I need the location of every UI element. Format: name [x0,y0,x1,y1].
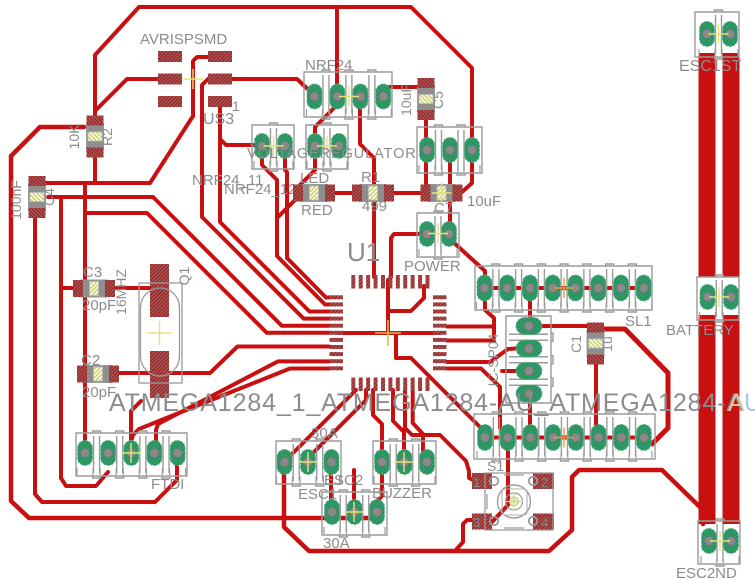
svg-text:Q1: Q1 [176,266,192,285]
capacitor C7 10uF [429,185,455,202]
svg-text:BATTERY: BATTERY [666,322,734,339]
connector ESC2ND [698,519,740,566]
wire U1 bottom pad8 to S1 button pad1 [405,390,475,481]
svg-text:1u: 1u [599,336,615,352]
wire VREG-B pin1 to LED left [298,150,315,189]
origin cross BUZZER [394,452,414,472]
origin cross VREG A [264,136,284,156]
svg-text:U1: U1 [347,237,380,267]
svg-text:C5: C5 [430,91,446,109]
wire S1 row pad2 to button [492,438,508,522]
wire ESC1 pin1 down and around to ESC2ND bar [284,466,703,551]
wire NRF24 pin4 to C5 [389,85,422,89]
origin cross FTDI [121,443,141,463]
wire BUZZER pin1 down to 30A pad3 [377,466,382,517]
wire NRF24 pin2 up to top edge [335,9,339,93]
wire POWER pin2 diag through SL1 pin1 down right side [452,241,494,341]
svg-text:VOLTAGEREGULATOR: VOLTAGEREGULATOR [247,146,417,162]
svg-text:C7: C7 [434,200,453,217]
resistor R2 10K [87,116,104,158]
wire ESC1 pin3 down to 30A pad1 [331,466,332,512]
wire R2 bottom stub [93,158,97,183]
wire H2: C4 right to fan pad5 [48,197,329,326]
wire US3 pin4 to NRF24 pin1 [232,79,314,95]
wire FTDI pad3 up [131,401,141,449]
svg-text:S1: S1 [487,458,504,474]
connector S1 row (ATMEGA module) [474,412,655,461]
connector BATTERY [697,275,739,322]
connector ESC 30A bottom 3-pin [322,490,387,537]
connector NRF24_11 (VREG A) [252,123,294,171]
wire vertical x61 C3 branch [59,197,63,478]
wire bottom edge branch to S1 button [455,520,474,551]
svg-text:BUZZER: BUZZER [372,485,432,502]
origin cross U1 [375,320,401,346]
svg-text:3: 3 [473,515,480,530]
wire U1 bottom pad9 to BUZZER pin3 [413,390,427,462]
wire H3: to fan pad6 [85,213,329,333]
wire NRF24 pin3 down to R1 [360,100,374,186]
origin cross S1 row [554,428,574,448]
wire US3 pin3 vertical to fan pad4 [202,79,329,319]
connector POWER [417,211,459,259]
wire IC-SP04 pin3 stub [502,369,517,373]
wire R1 right to C7 left [392,191,424,195]
svg-text:30A: 30A [311,425,338,442]
origin cross VREG B [317,136,337,156]
wire US3 pin1 vertical to H1 diagonal [193,57,208,116]
svg-text:499: 499 [362,198,387,215]
svg-text:A: A [728,389,745,417]
svg-text:ATMEGA1284_1_ATMEGA1284-AU_ATM: ATMEGA1284_1_ATMEGA1284-AU_ATMEGA1284-A [109,389,744,417]
svg-text:1: 1 [232,98,240,114]
svg-text:C4: C4 [41,188,57,206]
switch S1 pushbutton [472,473,492,489]
wire FTDI pad5 diag to L2 junction [155,466,177,502]
origin cross POWER [428,224,448,244]
svg-text:C1: C1 [568,335,584,353]
wire branch to U1 right pad7 [447,339,494,343]
svg-text:ESC1ST: ESC1ST [679,58,741,75]
origin cross ESC 30A [344,502,364,522]
wire C1 bottom to S1 row pad6 [596,360,598,437]
capacitor C2 20pF [85,366,111,383]
wire C3 left stub [61,286,74,290]
wire H1: C4 top - R2 bottom - diag to US3 vertical [37,116,193,183]
svg-text:1: 1 [473,475,480,490]
wire R1 bottom to U1 top pad [372,200,376,277]
wire U1 centre vertical [386,280,390,333]
op-amp U1 ATMEGA1284 TQFP44 pads [351,275,355,289]
wire U1 bottom pad1 to ESC1 pin1 [284,390,356,462]
capacitor C4 100nF [29,176,46,218]
origin cross Q1 [148,321,172,345]
svg-text:30A: 30A [323,535,350,552]
resistor R1 499 [360,185,386,202]
capacitor C5 10uF [418,78,435,120]
wire POWER pin1 from left and down to U1 [391,234,421,277]
wire LED right to R1 left [332,191,356,195]
connector BUZZER 3-pin [373,439,436,486]
wire U1 left pads to FTDI diag B [131,369,329,443]
wire outline trace left+bottom from R2 top to BUZZER pin1 net [11,127,372,518]
connector ESC1ST [695,10,739,59]
svg-text:10uF: 10uF [398,84,414,116]
svg-text:R2: R2 [99,128,115,146]
wire US3 pin2 to R2 top [95,79,158,118]
svg-text:FTDI: FTDI [151,476,184,493]
origin cross ESC2ND [710,531,730,551]
wire SL1 pin3 to IC-SP04 pin1 [528,292,532,326]
wire IC-SP04 pin4 down to S1 row pad3 [530,398,531,437]
component US3 AVRISPSMD pads [158,51,182,62]
wire IC-SP04 pin1 to C1 top and on to bottom right [543,324,596,328]
wire U1 bottom pad6 to BUZZER pin2 [393,390,404,462]
svg-text:AVRISPSMD: AVRISPSMD [140,31,227,48]
wire U1 centre horizontal [338,331,440,335]
svg-text:10K: 10K [66,124,82,150]
svg-text:2: 2 [541,475,548,490]
svg-text:ESC2ND: ESC2ND [676,565,737,580]
svg-text:IC-SP04: IC-SP04 [485,333,501,386]
svg-text:NRF24: NRF24 [305,57,353,74]
origin cross NRF24 [339,87,359,107]
wire BATTERY to ESC2ND right bar [723,315,740,524]
connector NRF24 [304,70,392,119]
origin cross SL1 [554,278,574,298]
svg-text:US3: US3 [203,111,234,128]
connector SL1 [475,264,652,312]
svg-text:R1: R1 [361,169,380,186]
wire LED left pad down joins fan x277 [277,199,296,218]
LED RED chip [301,185,327,202]
wire NRF24 pin2 down to VREG-B pin1 [315,100,336,142]
crystal Q1 16MHZ [150,264,169,317]
svg-text:SL1: SL1 [625,313,652,330]
wire VREG-A pin1 to fan pad2 via x277 [262,150,329,305]
wire U1 bottom pad3 to BUZZER pin1 [373,390,382,462]
svg-text:4: 4 [541,515,548,530]
wire vertical x35 C4 bottom to FTDI pad5 junction [35,213,155,502]
svg-text:U: U [744,389,755,417]
svg-text:POWER: POWER [404,258,461,275]
connector 3-pin below C5 [417,125,482,175]
wire ESC1ST right bar [723,53,740,277]
wire 3-pin pad2 through C7 right to POWER pin2 [448,152,452,228]
wire C3 right to Q1 top pad [110,286,160,290]
wire C5 through 3-pin pad1 to C7 left pad [424,105,428,188]
wire U1 left pads to FTDI diag A [156,361,329,449]
connector IC-SP04 [506,316,553,403]
wire 30A pad2 up [352,470,356,505]
svg-text:10uF: 10uF [467,193,501,210]
capacitor C3 20pF [81,280,107,297]
svg-text:LED: LED [300,170,329,187]
connector ESC1 3-pin [276,439,341,486]
wire U1 centre to S1 row pad1 diagonal [396,333,485,434]
origin cross C7 [432,183,452,203]
connector NRF24_12 (VREG B) [306,123,348,171]
wire FTDI L1 under connector [61,472,108,486]
svg-text:C3: C3 [83,264,102,281]
wire ESC1ST left bar [699,53,716,277]
origin cross S1 button [505,493,523,511]
wire top edge / outline trace from R2 to C7 [95,7,472,192]
wire BATTERY to ESC2ND left bar [699,315,716,524]
connector FTDI [76,431,187,478]
wire U1 bottom pad2 to ESC1 pin2 [310,390,366,462]
origin cross ESC1 [298,452,318,472]
wire VREG-A pin2 down to fan pad1 [285,150,329,298]
wire branch to U1 right pad5 [447,325,494,329]
wire SL1 row bus [485,286,644,290]
wire S1 row bus [485,436,644,440]
svg-text:RED: RED [301,202,333,219]
svg-text:NRF24_12: NRF24_12 [224,181,297,198]
origin cross ESC1ST [709,24,729,44]
wire U1 interior elbow [388,286,424,311]
svg-text:100nF: 100nF [8,180,24,220]
origin cross BATTERY [709,287,729,307]
wire US3 pin5 to VREG-A pin1 and fan pad3 [220,104,329,312]
capacitor C1 1u [587,323,604,365]
wire U1 right pad10 to IC-SP04 pin2 [447,349,516,363]
svg-text:C2: C2 [81,352,100,369]
svg-text:20pF: 20pF [82,297,116,314]
wire C2 right to Q1 bottom pad and U1 pad8 [117,347,329,374]
wire vertical x85 to C2/FTDI1 [83,183,87,368]
origin cross US3 [183,69,203,89]
wire U1 right pad11 to S1 row pad2 [447,369,508,437]
svg-text:16MHZ: 16MHZ [113,269,129,315]
